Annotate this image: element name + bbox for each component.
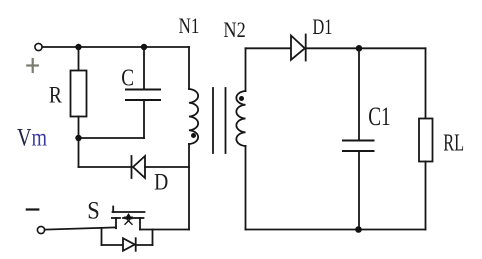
wire primary bottom to MOSFET drain xyxy=(188,144,190,230)
gate bar xyxy=(113,211,145,213)
wire secondary top lead xyxy=(245,48,247,91)
transistor S (MOSFET) xyxy=(112,207,145,230)
wire R bottom lead xyxy=(78,117,80,139)
transformer primary winding N1 xyxy=(189,89,198,144)
channel segment source xyxy=(112,217,120,219)
diode D xyxy=(132,156,146,178)
resistor RL xyxy=(419,119,433,162)
terminal + (input positive) xyxy=(35,43,42,50)
channel segment body xyxy=(123,217,134,219)
transformer secondary winding N2 xyxy=(236,91,245,146)
plus sign label xyxy=(27,59,38,72)
svg-text:RL: RL xyxy=(443,131,464,157)
transformer core xyxy=(212,88,214,153)
wire C1 top lead xyxy=(358,48,360,140)
wire bottom rail right (drain side) xyxy=(140,229,189,231)
svg-text:C: C xyxy=(121,65,134,92)
drain stub xyxy=(139,218,141,230)
secondary phase dot xyxy=(239,96,244,101)
terminal - (input negative) xyxy=(37,226,44,233)
capacitor C1 xyxy=(343,141,374,152)
wire to diode D cathode xyxy=(79,166,132,168)
svg-text:C1: C1 xyxy=(368,102,390,130)
wire C top lead xyxy=(143,47,145,90)
node output junction top xyxy=(356,45,363,52)
svg-text:D: D xyxy=(154,169,168,195)
svg-text:R: R xyxy=(49,82,63,108)
minus sign label xyxy=(27,208,39,210)
body diode loop right xyxy=(152,230,154,246)
wire C bottom lead xyxy=(143,100,145,138)
wire bottom rail left (source side) xyxy=(45,227,116,229)
body diode of S xyxy=(123,238,136,251)
wire RL top lead xyxy=(425,48,427,118)
wire R top lead xyxy=(78,47,80,71)
wire diode D anode to drain node xyxy=(145,166,189,168)
body diode loop left xyxy=(101,228,103,245)
diode D1 xyxy=(291,35,306,61)
capacitor C xyxy=(126,90,160,101)
wire secondary top to D1 anode xyxy=(246,47,292,49)
node bottom junction C1 xyxy=(355,226,362,233)
wire secondary bottom rail xyxy=(246,229,426,231)
channel segment drain xyxy=(136,217,144,219)
wire snubber bottom xyxy=(79,137,145,139)
wire Vm node down xyxy=(78,138,80,167)
svg-text:N2: N2 xyxy=(223,19,245,43)
wire D1 cathode to output rail xyxy=(306,47,426,49)
wire C1 bottom lead xyxy=(358,151,360,230)
node Vm junction xyxy=(75,135,81,141)
wire RL bottom lead xyxy=(425,162,427,230)
svg-text:S: S xyxy=(87,197,100,224)
node junction R top xyxy=(75,44,81,50)
svg-text:Vm: Vm xyxy=(17,123,47,151)
body diode loop bottom left xyxy=(102,244,124,246)
node junction C top xyxy=(141,44,147,50)
svg-text:D1: D1 xyxy=(313,16,333,40)
source stub xyxy=(115,218,117,228)
wire secondary bottom lead xyxy=(245,146,247,230)
body diode loop bottom right xyxy=(136,244,153,246)
svg-text:N1: N1 xyxy=(179,15,200,39)
body arrow xyxy=(125,213,133,219)
wire primary top lead xyxy=(188,47,190,89)
wire top rail xyxy=(42,46,189,48)
primary phase dot xyxy=(191,133,196,138)
resistor R xyxy=(71,71,87,117)
gate lead tick xyxy=(112,207,114,213)
